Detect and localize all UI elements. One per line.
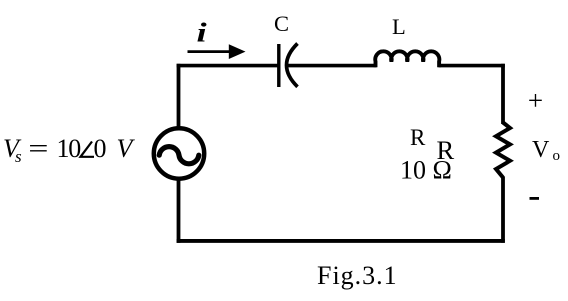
svg-text:0: 0 — [94, 134, 107, 163]
svg-text:L: L — [392, 14, 406, 39]
voltage source sine wave — [159, 147, 199, 164]
capacitor C1 right curved plate — [287, 44, 298, 87]
wire: top horizontal left (corner to capacitor) — [177, 64, 278, 68]
label - (bottom of Vo) — [530, 197, 540, 200]
current arrow i — [188, 50, 234, 53]
svg-text:10 Ω: 10 Ω — [400, 156, 452, 185]
svg-text:=: = — [28, 134, 48, 163]
svg-text:Fig.3.1: Fig.3.1 — [317, 261, 398, 290]
wire: bottom horizontal — [177, 239, 505, 243]
wire: left vertical upper (source to top-left corner) — [177, 64, 181, 127]
wire: right vertical lower (resistor to bottom-right corner) — [501, 177, 505, 243]
wire: capacitor to inductor — [288, 64, 377, 68]
inductor L (4 loops) — [375, 51, 439, 67]
svg-text:o: o — [553, 148, 561, 164]
svg-text:V: V — [117, 134, 136, 163]
svg-text:s: s — [15, 147, 22, 166]
angle symbol — [81, 142, 95, 157]
label Vs = 10&#8736;0 V — [3, 134, 136, 166]
svg-text:+: + — [528, 86, 543, 116]
resistor R zigzag — [496, 123, 510, 178]
svg-text:R: R — [410, 125, 426, 150]
svg-text:i: i — [197, 17, 207, 47]
svg-text:10: 10 — [57, 134, 82, 163]
wire: right vertical upper (corner to resistor) — [501, 64, 505, 124]
voltage source Vs circle — [154, 128, 204, 178]
capacitor C1 left plate — [277, 44, 280, 87]
wire: left vertical lower (source to bottom-left corner) — [177, 180, 181, 243]
svg-text:V: V — [532, 137, 550, 163]
svg-text:C: C — [274, 11, 289, 36]
wire: inductor to top-right corner — [439, 64, 505, 68]
